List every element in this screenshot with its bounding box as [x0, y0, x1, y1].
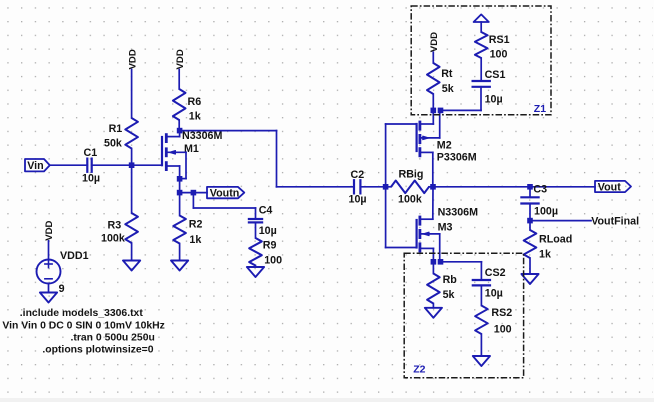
svg-text:100: 100 [490, 49, 508, 61]
wire C4 to R9 [255, 222, 257, 238]
wire M1 drain to right [180, 130, 277, 132]
value 10µ of C1 [82, 173, 100, 185]
label Rt [441, 68, 453, 80]
wire VDD to R1 [131, 70, 133, 119]
wire CS2 to RS2 [480, 285, 482, 305]
wire VDD to R6 [178, 70, 180, 90]
ground under R3 [123, 261, 140, 271]
svg-text:CS2: CS2 [485, 267, 506, 279]
wire node to R3 [131, 165, 133, 213]
boundary box Z2 [404, 253, 523, 378]
transistor M3 [417, 187, 440, 261]
label M1 [184, 143, 199, 155]
ground under VDD1 [40, 293, 57, 303]
node at M3 bulk [438, 259, 444, 265]
value 9 of VDD1 [59, 283, 65, 295]
wire Voutn node down [192, 193, 194, 208]
svg-text:5k: 5k [443, 289, 455, 301]
capacitor C4 [249, 219, 262, 222]
wire to Voutn port [180, 192, 207, 194]
node at R1/R3/Vin junction [129, 162, 135, 168]
wire node to M1 gate [132, 164, 162, 166]
label CS1 [485, 69, 506, 81]
capacitor CS2 [473, 280, 490, 285]
svg-text:M3: M3 [438, 221, 453, 233]
node at Voutn junction [177, 190, 183, 196]
wire VDD to Rt [432, 52, 434, 63]
wire RBig to output node [429, 186, 433, 188]
svg-text:50k: 50k [104, 137, 122, 149]
svg-text:Voutn: Voutn [210, 188, 239, 200]
svg-text:100k: 100k [101, 232, 125, 244]
svg-text:.options plotwinsize=0: .options plotwinsize=0 [42, 344, 153, 355]
svg-text:10µ: 10µ [485, 93, 503, 105]
port flag Vout [595, 181, 631, 194]
ground under R2 [171, 261, 188, 271]
spice directive tran [71, 333, 155, 344]
wire VDD to VDD1 [48, 241, 50, 260]
svg-text:R3: R3 [108, 220, 122, 232]
capacitor C1 [87, 159, 91, 172]
label RLoad [539, 233, 572, 245]
svg-text:Rt: Rt [441, 68, 453, 80]
label R9 [263, 239, 277, 251]
label C3 [533, 183, 547, 195]
label C4 [259, 205, 273, 217]
label RS1 [489, 34, 510, 46]
resistor RS2 [475, 306, 488, 335]
value 10µ of C4 [259, 225, 277, 237]
label Rb [443, 274, 458, 286]
svg-text:M2: M2 [437, 140, 452, 152]
wire C2 to gate node [360, 186, 385, 188]
wire R9 to ground [255, 266, 257, 268]
power flag arrow Z1 [474, 14, 489, 32]
label N3306M of M3 [438, 207, 478, 219]
label Z1 [534, 103, 546, 115]
label R2 [189, 219, 203, 231]
node at M1 drain [177, 128, 183, 134]
wire node to RLoad [529, 221, 531, 230]
node at M2 source [431, 108, 437, 114]
node at M2/M3 drain junction [430, 184, 436, 190]
value 100k of RBig [398, 193, 422, 205]
node at gate bias junction [383, 184, 389, 190]
svg-text:.tran 0 500u 250u: .tran 0 500u 250u [71, 333, 155, 344]
svg-text:RS1: RS1 [489, 34, 510, 46]
node at C4 branch [191, 190, 197, 196]
wire Rt to node [432, 94, 434, 110]
power label VDD (Rt) [429, 32, 440, 52]
node at M1 source [177, 176, 183, 182]
svg-text:VDD: VDD [429, 32, 440, 52]
svg-text:Vin: Vin [27, 160, 43, 172]
wire to M3 gate [386, 247, 417, 249]
svg-text:100µ: 100µ [534, 205, 558, 217]
svg-text:VDD: VDD [175, 49, 186, 69]
svg-text:100k: 100k [398, 193, 422, 205]
label C2 [351, 169, 365, 181]
wire node to CS1 [441, 87, 482, 111]
label M3 [438, 221, 453, 233]
label P3306M of M2 [437, 151, 477, 163]
wire to C2 [277, 186, 355, 188]
svg-text:Rb: Rb [443, 274, 458, 286]
svg-text:RLoad: RLoad [539, 233, 572, 245]
svg-text:RBig: RBig [399, 168, 424, 180]
capacitor C2 [354, 180, 360, 193]
wire RS1 to CS1 [480, 58, 482, 81]
wire node to CS2 [441, 262, 482, 280]
svg-text:1k: 1k [189, 111, 201, 123]
svg-text:Z1: Z1 [534, 103, 546, 115]
label CS2 [485, 267, 506, 279]
capacitor CS1 [473, 81, 490, 87]
svg-text:C1: C1 [84, 147, 98, 159]
svg-text:VDD: VDD [127, 49, 138, 69]
boundary box Z1 [411, 6, 551, 115]
wire VDD1 to ground [48, 284, 50, 293]
resistor RBig [391, 181, 429, 194]
svg-text:Vout: Vout [598, 182, 621, 194]
wire Rb to ground [432, 304, 434, 308]
svg-text:R6: R6 [188, 96, 202, 108]
label RBig [399, 168, 424, 180]
svg-text:P3306M: P3306M [437, 151, 477, 163]
wire M1 source to Voutn node [179, 179, 181, 193]
node at M3 source [431, 259, 437, 265]
resistor Rt [427, 63, 440, 94]
svg-text:RS2: RS2 [491, 307, 512, 319]
resistor RLoad [524, 230, 537, 258]
transistor M2 [417, 111, 440, 187]
svg-text:N3306M: N3306M [182, 130, 222, 142]
value 100 of RS1 [490, 49, 508, 61]
port flag Voutn [207, 187, 244, 200]
net label VoutFinal [591, 216, 639, 228]
svg-text:10µ: 10µ [349, 193, 367, 205]
wire to M2 gate [386, 123, 417, 125]
svg-text:1k: 1k [189, 234, 201, 246]
ground under RLoad [521, 274, 538, 284]
wire M3 source to Rb [432, 262, 434, 274]
power label VDD (R1 branch) [127, 49, 138, 69]
wire R2 to ground [179, 244, 181, 261]
wire R6 to drain node [178, 120, 180, 131]
value 1k of R6 [189, 111, 201, 123]
svg-text:.include models_3306.txt: .include models_3306.txt [20, 308, 144, 319]
wire C1 to node [92, 164, 132, 166]
svg-text:R1: R1 [109, 123, 123, 135]
svg-text:R2: R2 [189, 219, 203, 231]
node at C3/Vout [527, 184, 533, 190]
node at M2 bulk [438, 108, 444, 114]
wire to C4 [193, 208, 255, 219]
label R1 [109, 123, 123, 135]
label VDD1 [60, 250, 89, 262]
port flag Vin [25, 159, 50, 172]
svg-text:VoutFinal: VoutFinal [591, 216, 639, 228]
value 5k of Rb [443, 289, 455, 301]
resistor RS1 [475, 32, 488, 58]
power label VDD (R6 branch) [175, 49, 186, 69]
svg-text:100: 100 [494, 323, 512, 335]
label R3 [108, 220, 122, 232]
value 50k of R1 [104, 137, 122, 149]
label R6 [188, 96, 202, 108]
wire Vin to C1 [50, 164, 88, 166]
wire gate node to RBig [386, 186, 391, 188]
wire RS2 to ground [480, 334, 482, 356]
ground under RS2 [473, 356, 490, 366]
wire gate vertical line [385, 124, 387, 248]
spice directive Vin source [2, 320, 164, 331]
svg-text:Z2: Z2 [413, 363, 425, 375]
power label VDD (VDD1) [44, 220, 55, 240]
resistor R9 [249, 238, 262, 266]
wire to Vout port [530, 186, 595, 188]
label RS2 [491, 307, 512, 319]
wire VoutFinal [530, 220, 591, 222]
svg-text:N3306M: N3306M [438, 207, 478, 219]
spice directive include [20, 308, 144, 319]
svg-text:VDD: VDD [44, 220, 55, 240]
svg-text:9: 9 [59, 283, 65, 295]
svg-text:1k: 1k [539, 248, 551, 260]
svg-text:C3: C3 [533, 183, 547, 195]
value 100 of RS2 [494, 323, 512, 335]
wire R1 to node [131, 149, 133, 166]
svg-text:C2: C2 [351, 169, 365, 181]
value 5k of Rt [442, 83, 454, 95]
wire C3 node down [529, 187, 531, 198]
resistor R2 [173, 216, 186, 244]
resistor Rb [427, 274, 440, 304]
label N3306M of M1 [182, 130, 222, 142]
value 100µ of C3 [534, 205, 558, 217]
value 100 of R9 [264, 254, 282, 266]
resistor R6 [173, 89, 186, 120]
wire RLoad to ground [529, 258, 531, 274]
ground under Rb [425, 308, 442, 318]
value 100k of R3 [101, 232, 125, 244]
svg-text:10µ: 10µ [259, 225, 277, 237]
ground under R9 [247, 267, 264, 277]
transistor M1 [162, 131, 186, 179]
label M2 [437, 140, 452, 152]
label C1 [84, 147, 98, 159]
wire down to signal row [276, 131, 278, 187]
svg-text:Vin Vin 0 DC 0 SIN 0 10mV 10kH: Vin Vin 0 DC 0 SIN 0 10mV 10kHz [2, 320, 164, 331]
svg-text:VDD1: VDD1 [60, 250, 89, 262]
wire output to C3 node [433, 186, 530, 188]
resistor R3 [125, 213, 138, 243]
svg-text:5k: 5k [442, 83, 454, 95]
svg-text:C4: C4 [259, 205, 273, 217]
svg-text:100: 100 [264, 254, 282, 266]
spice directive options [42, 344, 153, 355]
svg-text:10µ: 10µ [485, 288, 503, 300]
value 10µ of CS1 [485, 93, 503, 105]
voltage source VDD1 [37, 260, 61, 284]
value 1k of RLoad [539, 248, 551, 260]
value 10µ of C2 [349, 193, 367, 205]
svg-text:CS1: CS1 [485, 69, 506, 81]
svg-text:10µ: 10µ [82, 173, 100, 185]
svg-text:R9: R9 [263, 239, 277, 251]
wire Voutn node to R2 [179, 193, 181, 216]
wire R3 to ground [131, 243, 133, 261]
capacitor C3 [521, 197, 538, 203]
value 1k of R2 [189, 234, 201, 246]
label Z2 [413, 363, 425, 375]
value 10µ of CS2 [485, 288, 503, 300]
resistor R1 [125, 118, 138, 149]
wire C3 to VoutFinal node [529, 204, 531, 221]
node at VoutFinal [527, 218, 533, 224]
